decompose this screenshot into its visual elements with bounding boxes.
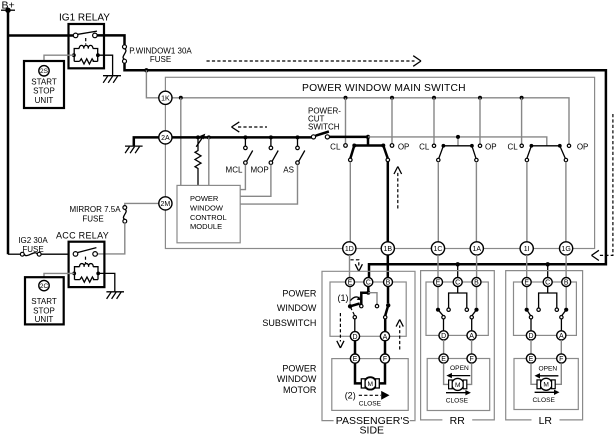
wire passenger rocker to 1B (active) [387,162,390,242]
wire 2A to ground [134,137,159,145]
outer box LR [506,271,583,420]
IG2 fuse label [18,236,48,254]
wire rocker feed to RR and LR [368,137,547,146]
motor pins passenger E F [350,354,389,363]
wire thick line to LR C [547,264,549,277]
rocker switch RR [432,144,481,162]
svg-text:C: C [545,280,550,287]
wire bus to control module [180,98,182,186]
connector 1I [520,242,533,255]
svg-text:CL: CL [507,142,518,151]
svg-text:E: E [348,280,353,287]
svg-text:CLOSE: CLOSE [359,401,382,408]
subswitch box LR [514,282,577,335]
subswitch box passenger [330,282,406,336]
power window control module text [190,194,227,231]
svg-text:STOP: STOP [33,306,55,315]
wire 1B to subswitch B (active) [387,255,390,278]
svg-text:1G: 1G [561,246,570,253]
svg-text:1I: 1I [524,246,530,253]
outer box passenger side [322,271,415,420]
RR subswitch internals [436,287,479,332]
LR subswitch internals [525,287,569,332]
svg-text:2A: 2A [161,135,170,142]
dashed flow (1) arrow below 1D [351,260,363,272]
svg-text:CLOSE: CLOSE [446,398,469,405]
wire fuse to connector 1K [146,70,158,98]
svg-text:B: B [474,280,479,287]
wire 1D to subswitch E [349,255,351,278]
relay IG1 contact [73,31,97,44]
svg-text:M: M [368,381,374,388]
wire IG1 relay to fuse [97,35,124,45]
svg-text:POWER: POWER [282,364,317,374]
rocker switch passenger (main switch) [344,144,394,162]
wire LR A to motor F [560,340,562,354]
svg-text:E: E [524,280,529,287]
wire mirror fuse to ACC relay [97,223,124,254]
junction dot thick line to LR C [546,262,550,266]
svg-text:FUSE: FUSE [82,215,103,224]
start stop unit 2C text [31,297,57,324]
node B+ terminal [1,0,15,13]
dashed feedback line right side with left arrow [592,114,613,261]
junction dot thick line to RR C [456,262,460,266]
svg-text:FUSE: FUSE [22,245,43,254]
svg-text:CLOSE: CLOSE [533,397,556,404]
svg-text:MODULE: MODULE [190,222,222,231]
svg-text:1B: 1B [384,246,393,253]
svg-text:B: B [386,280,391,287]
wire 1G to LR subswitch B [565,255,567,278]
wire 1C to RR subswitch E [437,255,439,278]
connector 1G [560,242,573,255]
svg-text:IG2 30A: IG2 30A [18,236,48,245]
wire power-cut to passenger rocker [330,137,369,146]
power window main switch box [165,77,594,248]
start stop unit 2S box [24,61,64,108]
wire LR motor leads [531,363,561,384]
connector 1C [431,242,444,255]
RR close arrow and label [446,390,471,405]
wire thick line to RR C [457,264,459,277]
svg-text:OPEN: OPEN [450,365,469,372]
svg-text:RR: RR [450,415,466,427]
ground (ACC relay) [106,292,124,299]
CL OP labels passenger [330,142,409,151]
CL OP labels LR [507,142,588,151]
subswitch box RR [426,282,488,335]
motor pins RR E F [439,354,476,363]
junction dot rocker feed passenger [366,135,370,139]
svg-text:1A: 1A [473,246,482,253]
start stop unit 2C box [25,277,64,324]
svg-text:F: F [383,356,387,363]
wire RR motor leads [444,363,472,384]
svg-text:MCL: MCL [226,165,243,174]
svg-text:CONTROL: CONTROL [190,213,227,222]
svg-text:UNIT: UNIT [35,96,54,105]
junction dots on bus [179,96,524,100]
svg-text:D: D [528,333,533,340]
svg-text:OP: OP [485,142,497,151]
svg-text:1K: 1K [161,95,170,102]
wire passenger rocker to 1D [349,162,351,242]
dashed down arrow passenger left [337,313,344,348]
wire bus from 1K [172,98,569,144]
ground (IG1 relay) [103,76,121,83]
power-cut switch contact [311,132,329,139]
svg-text:MOP: MOP [250,165,268,174]
dashed flow arrow (ground bus, pointing left) [232,122,268,132]
rocker switch LR [520,144,571,162]
svg-text:CL: CL [419,142,430,151]
relay IG1 coil [72,45,100,64]
svg-text:E: E [353,356,358,363]
resistor (sensor) branch [195,134,205,186]
wire LR rocker to 1I 1G [527,162,566,242]
svg-text:POWER: POWER [190,194,219,203]
motor box passenger [332,359,408,411]
wire B+ vertical feed [7,10,10,254]
mirror fuse label [69,205,121,224]
wire 2M to mirror fuse [125,203,159,205]
svg-text:POWER WINDOW MAIN SWITCH: POWER WINDOW MAIN SWITCH [302,83,466,94]
svg-text:CL: CL [330,142,341,151]
svg-text:2M: 2M [161,201,171,208]
fuse IG2 30A [8,252,69,256]
wire RR A to motor F [471,340,473,354]
power-cut switch label [308,107,341,132]
connector 1K [159,91,172,104]
motor passenger [361,377,379,389]
svg-text:A: A [559,333,564,340]
connector 1D [343,242,356,255]
svg-text:C: C [455,280,460,287]
svg-text:MIRROR 7.5A: MIRROR 7.5A [69,205,121,214]
svg-text:F: F [559,356,563,363]
relay ACC box [69,242,105,287]
fuse label [129,47,192,64]
wire IG1 coil to ground [98,55,113,75]
svg-text:2C: 2C [40,283,49,290]
motor LR [537,378,555,390]
svg-text:AS: AS [283,165,294,174]
svg-text:M: M [455,382,461,389]
junction dot at fuse output [144,68,148,72]
wire 1A to RR subswitch B [476,255,478,278]
svg-text:WINDOW: WINDOW [190,203,224,212]
wire RR rocker to 1C 1A [438,162,476,242]
svg-text:A: A [383,334,388,341]
wire LR D to motor E [530,340,532,354]
wire bus feeds to contacts [346,98,522,144]
motor box LR [514,359,578,410]
wire passenger motor leads [355,363,385,383]
svg-text:WINDOW: WINDOW [277,374,317,384]
relay ACC contact [73,248,97,263]
fuse MIRROR 7.5A [123,206,127,224]
ground (2A) [125,146,143,153]
dashed up arrow (main switch near 1B) [394,167,402,209]
svg-text:START: START [31,77,57,86]
svg-text:2S: 2S [40,68,49,75]
svg-text:E: E [441,356,446,363]
power window subswitch label [262,289,316,328]
svg-text:1C: 1C [434,246,443,253]
svg-text:C: C [366,280,371,287]
switch MOP [250,137,278,174]
wire IG1 coil to start stop unit [44,55,74,61]
fuse P.WINDOW1 30A [123,45,127,63]
svg-text:WINDOW: WINDOW [277,303,317,313]
svg-text:(1): (1) [338,293,349,303]
motor box RR [427,359,490,411]
svg-text:POWER: POWER [282,289,317,299]
svg-text:(2): (2) [345,391,356,401]
connector 1A [470,242,483,255]
wire main B+ thick route top and right side [125,63,606,277]
dashed up arrow passenger right [396,320,403,350]
wire 2A ground bus [172,136,312,139]
start stop unit text [31,77,57,105]
wire RR D to motor E [443,340,445,354]
svg-text:A: A [469,333,474,340]
svg-text:E: E [529,356,534,363]
svg-text:OP: OP [398,142,410,151]
wire MCL to module [240,165,245,190]
relay IG1 box [69,24,105,68]
label (2) and dashed close arrow passenger [345,391,390,408]
RR open arrow and label [446,365,470,378]
svg-text:LR: LR [539,415,553,427]
power window control module box [177,185,240,242]
svg-text:FUSE: FUSE [150,55,171,64]
wire 1I to LR subswitch E [526,255,528,278]
svg-text:SIDE: SIDE [360,425,385,437]
svg-text:OPEN: OPEN [538,366,557,373]
connector 1B [381,242,394,255]
subswitch pins passenger E C B D A [346,278,393,341]
wire ACC coil to ground [98,273,115,291]
svg-text:M: M [543,382,549,389]
connector 2S [39,66,49,76]
wire B+ to IG1 relay [8,34,73,37]
svg-text:SWITCH: SWITCH [308,123,340,132]
svg-text:STOP: STOP [33,87,55,96]
svg-text:UNIT: UNIT [35,315,54,324]
wire ACC coil to start stop unit 2C [44,273,74,277]
LR close arrow and label [533,390,560,404]
svg-text:IG1 RELAY: IG1 RELAY [59,13,110,24]
svg-text:OP: OP [577,142,589,151]
passenger subswitch internals [338,287,391,332]
svg-text:D: D [352,334,357,341]
subswitch pins RR [434,278,482,341]
wire passenger A to motor F [384,341,387,354]
switch AS [283,137,305,174]
outer box RR [421,271,495,420]
wire AS to module [240,165,297,205]
switch MCL [226,137,253,174]
power window motor label [277,364,317,396]
label PASSENGER'S SIDE [336,415,410,436]
connector 2A [159,131,172,144]
junction dot rocker feed RR [456,135,460,139]
wire branch to module [208,137,210,185]
motor pins LR E F [526,354,566,363]
svg-text:SUBSWITCH: SUBSWITCH [262,318,316,328]
svg-text:F: F [469,356,473,363]
svg-text:START: START [31,297,57,306]
dashed flow arrow (top) [207,56,422,67]
svg-text:ACC RELAY: ACC RELAY [56,231,109,241]
LR open arrow and label [535,366,559,379]
wire MOP to module [240,165,271,197]
svg-text:B: B [564,280,569,287]
connector 2C [39,280,49,290]
subswitch pins LR [522,278,571,341]
motor RR [449,378,467,390]
wire passenger D to motor E [354,341,357,354]
svg-text:1D: 1D [345,246,354,253]
svg-text:E: E [436,280,441,287]
connector 2M [159,197,172,210]
relay ACC coil [72,264,100,283]
svg-text:D: D [441,333,446,340]
svg-text:MOTOR: MOTOR [283,385,317,395]
CL OP labels RR [419,142,496,151]
junction dots on ground bus [196,135,300,139]
